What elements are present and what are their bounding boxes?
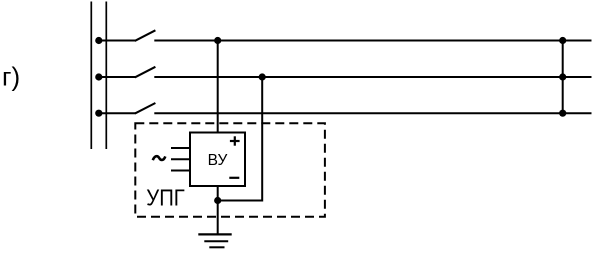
svg-text:ВУ: ВУ (208, 152, 228, 169)
svg-text:УПГ: УПГ (146, 184, 185, 210)
svg-text:г): г) (2, 62, 20, 92)
